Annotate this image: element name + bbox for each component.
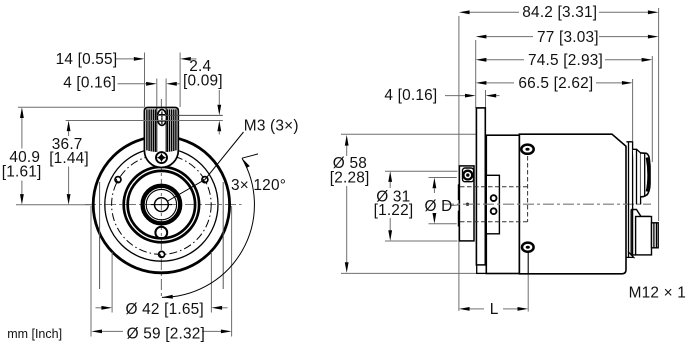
top oval screw — [521, 145, 533, 154]
ext right 658.6 — [658, 8, 660, 221]
bolt circle Ø42 dash-dot — [112, 155, 212, 255]
svg-text:[2.28]: [2.28] — [330, 169, 370, 186]
horizontal centerline — [85, 204, 242, 206]
neck / flange section — [486, 135, 519, 273]
M12 connector — [628, 210, 658, 259]
main body — [519, 134, 626, 274]
svg-text:74.5 [2.93]: 74.5 [2.93] — [528, 52, 603, 69]
ext 475.7 — [475, 40, 477, 108]
svg-text:66.5 [2.62]: 66.5 [2.62] — [518, 75, 593, 92]
ext line hub front / 84.2 left / L left — [458, 16, 460, 311]
M3 hole right — [202, 177, 208, 183]
svg-text:M12 × 1: M12 × 1 — [629, 284, 686, 301]
ring outer circle — [124, 167, 199, 242]
svg-text:[1.22]: [1.22] — [374, 202, 414, 219]
hidden bore dashed lines — [460, 156, 528, 222]
40.9 dim — [16, 107, 144, 205]
svg-text:Ø 42 [1.65]: Ø 42 [1.65] — [126, 301, 204, 318]
outer circle Ø59 — [93, 136, 229, 272]
Ø D leader — [451, 204, 465, 205]
side view centerline — [443, 203, 651, 205]
bottom screw — [156, 152, 167, 163]
rear section — [626, 142, 632, 258]
svg-text:4 [0.16]: 4 [0.16] — [63, 75, 116, 92]
clamp (stator coupling) — [144, 108, 178, 168]
2.4 dim — [66, 90, 223, 135]
svg-text:M3 (3×): M3 (3×) — [244, 118, 299, 135]
4 dim — [118, 79, 180, 108]
77 dim — [476, 35, 659, 39]
84.2 dim — [459, 10, 659, 14]
top screw oval — [157, 110, 166, 126]
Ø D vertical dim — [429, 178, 457, 224]
svg-text:4 [0.16]: 4 [0.16] — [384, 87, 437, 104]
bottom oval screw — [522, 243, 534, 252]
M3 hole left — [115, 177, 121, 183]
rear cap stack — [633, 149, 650, 204]
svg-text:3× 120°: 3× 120° — [231, 177, 286, 194]
svg-text:Ø D: Ø D — [425, 198, 453, 215]
slit edges — [156, 108, 158, 153]
Ø59 dim — [91, 206, 232, 337]
center circle — [155, 198, 169, 212]
coupling block — [486, 175, 499, 234]
hub block — [458, 166, 474, 241]
vertical centerline — [160, 99, 162, 297]
M3 leader line — [205, 132, 244, 180]
clamp body — [144, 108, 178, 168]
4 dim side — [445, 94, 500, 98]
74.5 dim — [476, 58, 653, 62]
svg-text:[0.09]: [0.09] — [183, 73, 223, 90]
ring inner circle — [128, 171, 195, 238]
right hatch band — [168, 109, 176, 152]
svg-text:14 [0.55]: 14 [0.55] — [56, 51, 118, 68]
svg-text:77 [3.03]: 77 [3.03] — [537, 29, 599, 46]
clamp ring plate — [476, 108, 485, 265]
Ø31 dim — [385, 171, 458, 241]
M3 hole bottom — [159, 251, 165, 257]
Ø58 dim — [341, 134, 485, 273]
plate bottom step — [477, 265, 487, 273]
L dim — [459, 307, 528, 311]
36.7 dim — [67, 121, 71, 205]
14 dim — [116, 53, 197, 108]
left hatch band — [147, 109, 155, 152]
svg-text:L: L — [490, 301, 499, 318]
hub inner thin circle — [146, 189, 176, 219]
clamp collar silhouette line left — [99, 182, 101, 289]
ext L right — [527, 274, 529, 312]
ext 632.6 — [632, 79, 634, 141]
hub ring — [143, 186, 181, 224]
Ø42 dim — [96, 252, 228, 313]
ext 652.3 — [651, 56, 653, 162]
clamp collar silhouette line right — [222, 182, 224, 289]
svg-text:[1.61]: [1.61] — [2, 164, 42, 181]
svg-text:[1.44]: [1.44] — [49, 150, 89, 167]
svg-text:Ø 59 [2.32]: Ø 59 [2.32] — [127, 325, 205, 342]
ext 485.5 — [485, 90, 487, 108]
svg-text:mm [Inch]: mm [Inch] — [7, 327, 62, 341]
svg-text:84.2 [3.31]: 84.2 [3.31] — [522, 4, 597, 21]
small hole below center — [155, 227, 167, 239]
thin circle — [105, 148, 218, 261]
66.5 dim — [476, 81, 633, 85]
body internal line — [527, 252, 529, 274]
center cross tick — [151, 204, 172, 206]
3x120 arc — [162, 154, 258, 299]
